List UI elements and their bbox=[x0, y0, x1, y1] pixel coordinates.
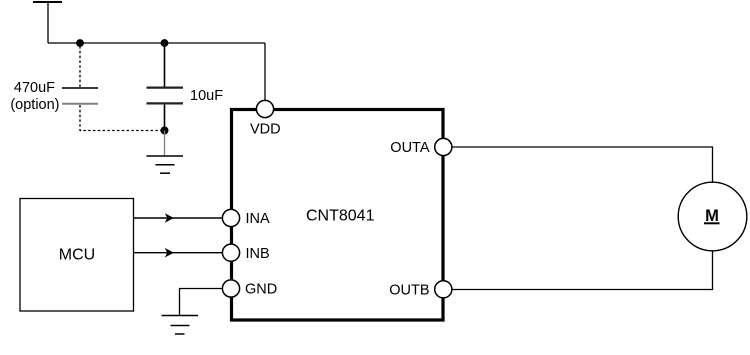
svg-text:VDD: VDD bbox=[250, 122, 281, 138]
capacitor C2 10uF top lead bbox=[164, 43, 166, 87]
wire MCU to INA bbox=[134, 217, 224, 219]
svg-text:OUTA: OUTA bbox=[390, 140, 430, 156]
wire GND pin to ground bbox=[180, 289, 224, 316]
svg-text:470uF: 470uF bbox=[14, 80, 55, 96]
motor label M underlined bbox=[704, 207, 720, 225]
svg-text:M: M bbox=[705, 207, 719, 225]
wire 10uF junction to ground bbox=[164, 131, 166, 157]
wire VDD drop bbox=[264, 43, 266, 101]
IC U1 CNT8041 body bbox=[232, 110, 444, 321]
svg-text:(option): (option) bbox=[10, 97, 59, 113]
capacitor C1 470uF bottom plate bbox=[62, 103, 98, 105]
pin INA circle bbox=[222, 209, 239, 226]
pin VDD circle bbox=[256, 100, 273, 117]
wire OUTB to motor bbox=[451, 251, 713, 290]
capacitor C2 10uF bottom plate bbox=[147, 102, 184, 104]
capacitor C2 10uF top plate bbox=[147, 86, 184, 88]
pin INB circle bbox=[222, 244, 239, 261]
svg-text:INB: INB bbox=[246, 246, 270, 262]
ground symbol at GND pin bbox=[162, 316, 199, 335]
svg-text:INA: INA bbox=[246, 211, 271, 227]
svg-text:OUTB: OUTB bbox=[389, 283, 429, 299]
svg-text:CNT8041: CNT8041 bbox=[306, 208, 375, 225]
svg-text:MCU: MCU bbox=[59, 247, 95, 264]
svg-text:GND: GND bbox=[245, 282, 277, 298]
arrowhead INB bbox=[165, 248, 174, 258]
junction node at 470uF tap bbox=[76, 39, 84, 47]
motor M1 circle bbox=[678, 182, 747, 251]
svg-text:10uF: 10uF bbox=[190, 88, 223, 104]
capacitor C1 470uF dashed top lead bbox=[79, 46, 81, 87]
pin GND circle bbox=[222, 280, 239, 297]
wire MCU to INB bbox=[134, 252, 224, 254]
junction node at 10uF tap bbox=[161, 39, 169, 47]
wire OUTA to motor bbox=[451, 147, 713, 183]
wire top supply rail bbox=[48, 42, 265, 44]
capacitor C2 10uF bottom lead bbox=[164, 104, 166, 131]
pin OUTA circle bbox=[435, 138, 452, 155]
arrowhead INA bbox=[165, 213, 174, 223]
pin OUTB circle bbox=[435, 281, 452, 298]
junction node below 10uF bbox=[161, 127, 169, 135]
MCU box bbox=[20, 199, 134, 312]
capacitor C1 470uF dashed bottom lead bbox=[80, 105, 161, 131]
capacitor C1 470uF top plate bbox=[62, 87, 98, 89]
power rail VCC bar bbox=[33, 2, 62, 43]
ground symbol below 10uF bbox=[147, 156, 184, 173]
